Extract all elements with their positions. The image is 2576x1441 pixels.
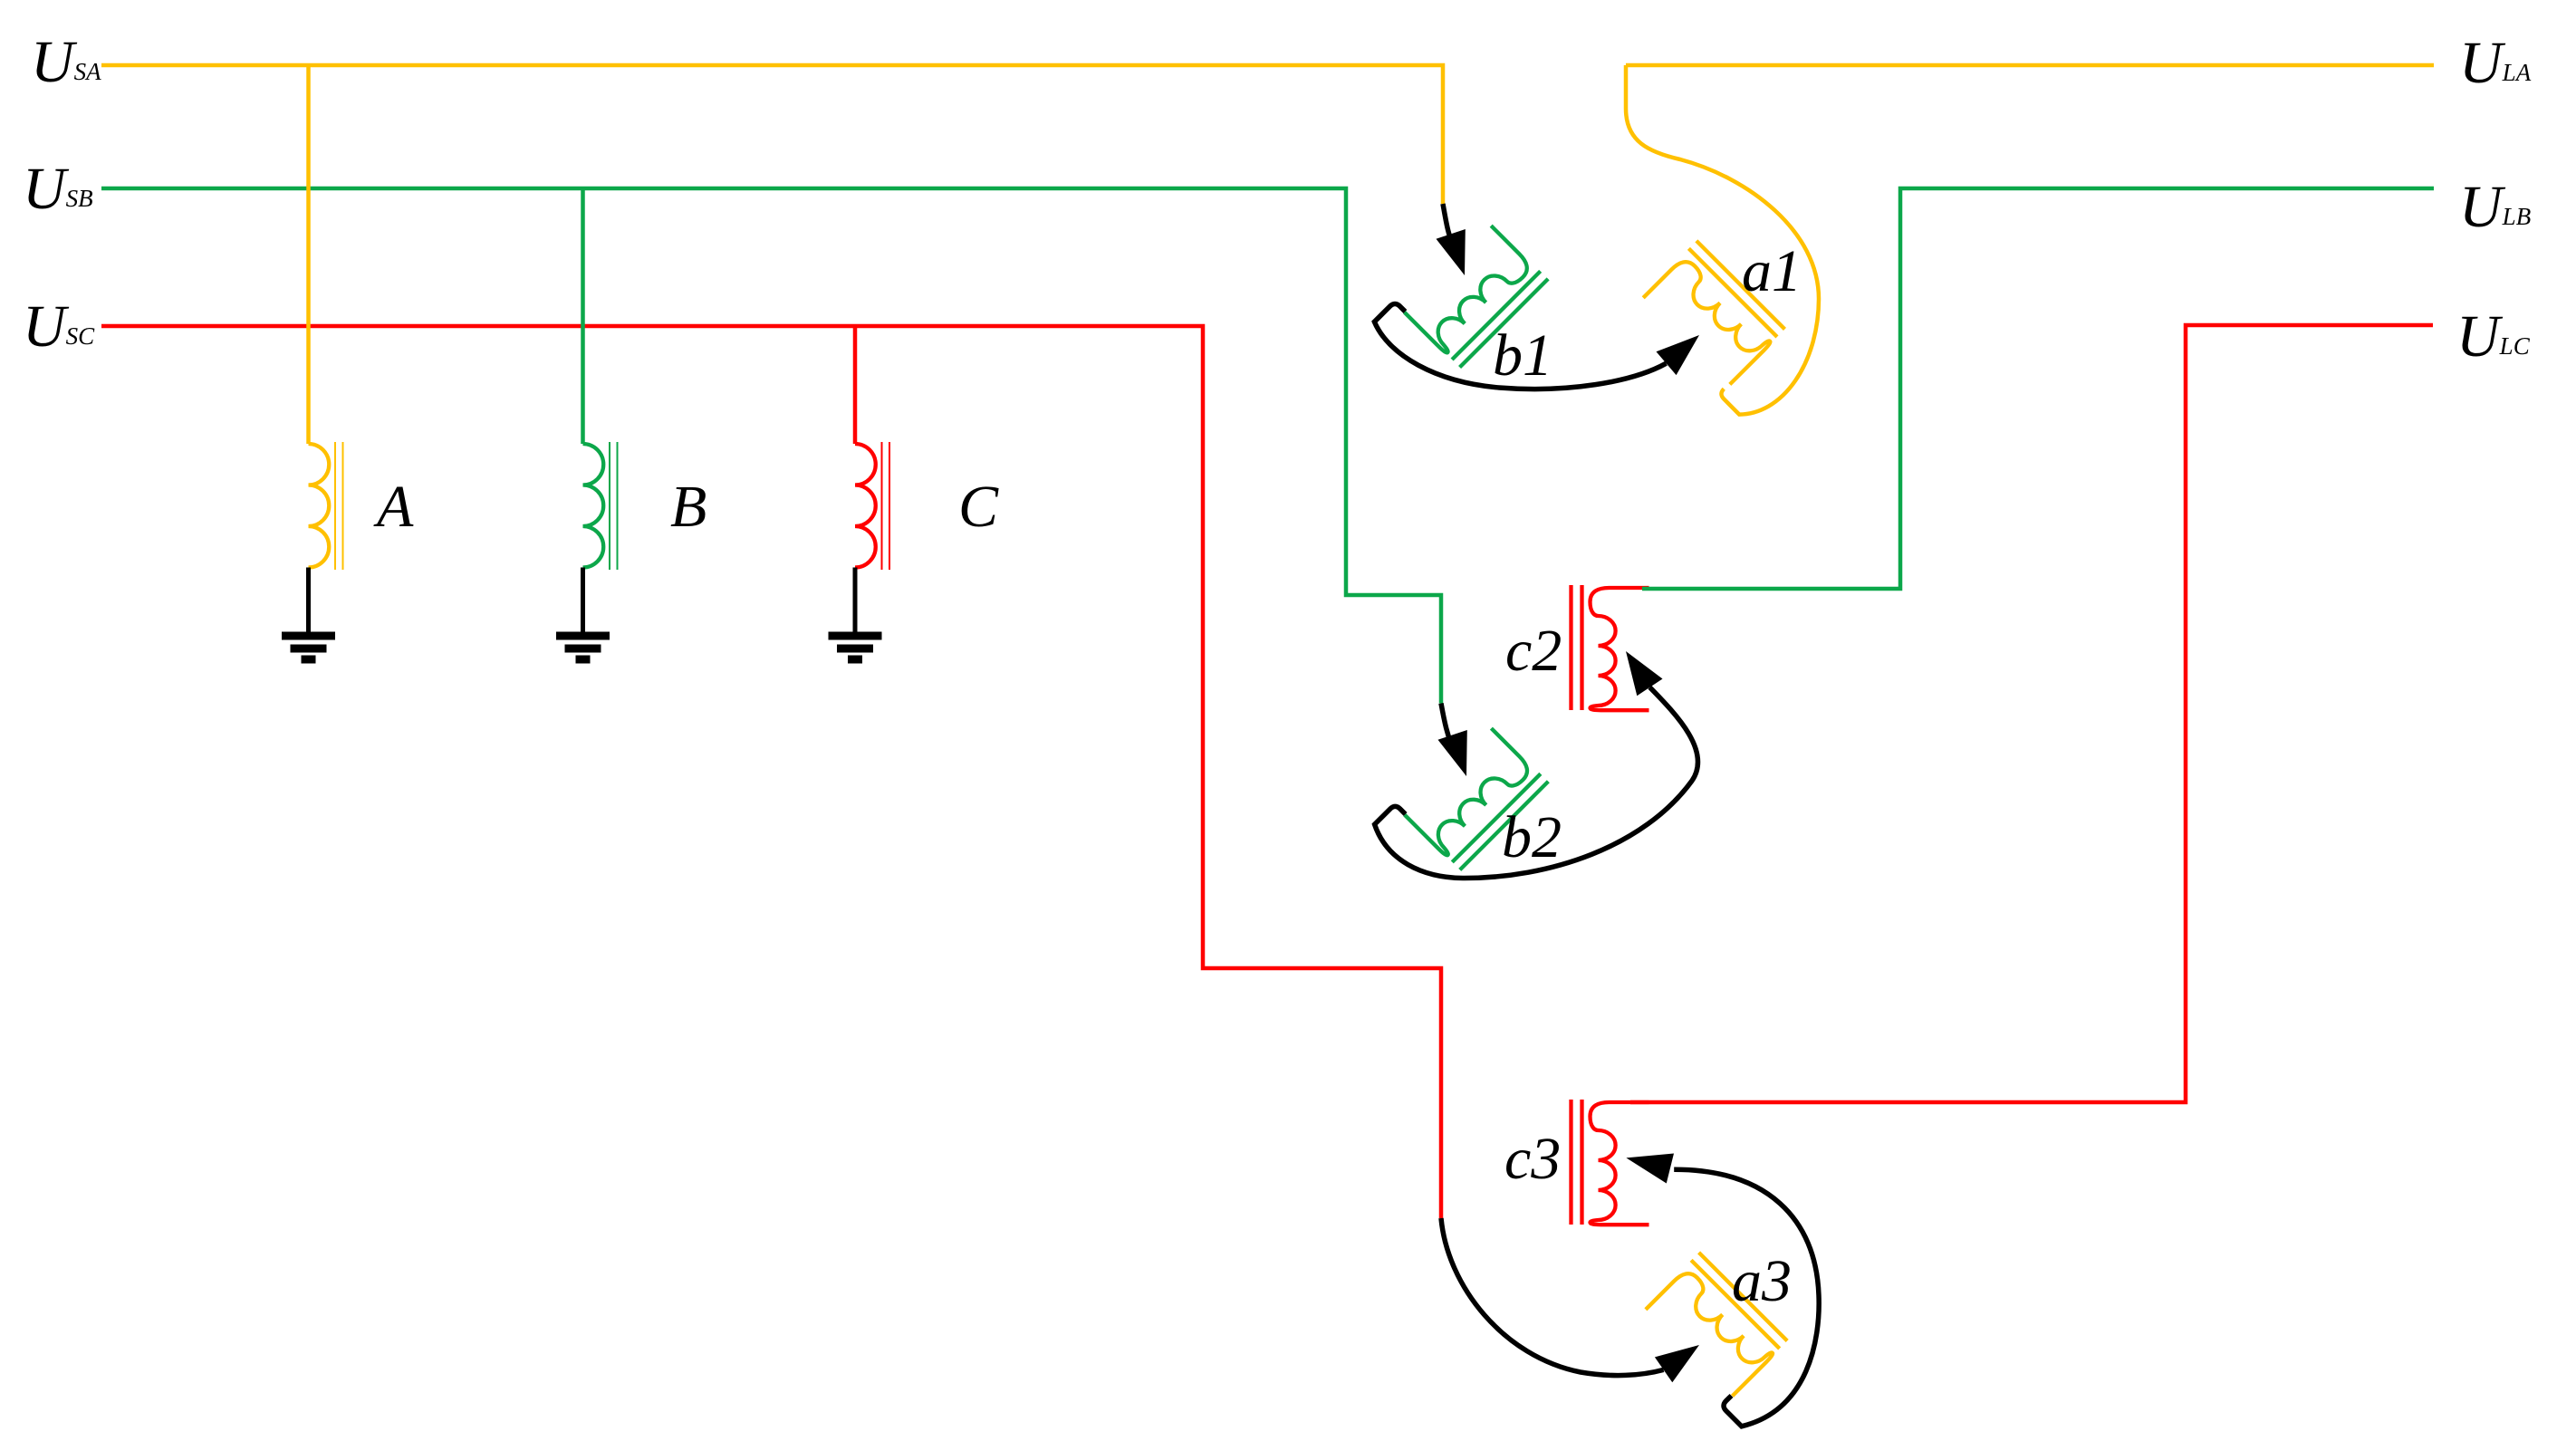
bus USB [101, 188, 1441, 704]
svg-text:USC: USC [23, 293, 95, 360]
black hook a3 + big arc to c3 [1674, 1169, 1819, 1427]
winding c2 [1572, 585, 1649, 710]
svg-text:a1: a1 [1742, 238, 1802, 304]
svg-text:USB: USB [23, 156, 93, 222]
svg-text:C: C [958, 474, 999, 540]
bus ULA [1626, 63, 2434, 68]
winding a3 [1646, 1253, 1787, 1397]
svg-text:ULA: ULA [2459, 30, 2532, 96]
bus USC [101, 326, 1441, 1218]
bus USA [101, 65, 1443, 204]
bus ULB (drawn after c2 so green overlaps red lead) [1642, 188, 2434, 589]
svg-text:b1: b1 [1493, 322, 1552, 389]
svg-text:A: A [373, 474, 414, 540]
ground B [556, 568, 610, 660]
wire drop to reactor A [306, 65, 311, 444]
winding b2 [1405, 728, 1549, 869]
ground C [829, 568, 882, 660]
winding c3 [1572, 1100, 1649, 1225]
wire drop to reactor C [853, 326, 858, 444]
wire ULA drop + arc into a1 hook [1626, 65, 1819, 415]
svg-text:ULB: ULB [2459, 174, 2531, 240]
svg-text:a3: a3 [1732, 1248, 1792, 1314]
black hook b2 + arc to c2 [1375, 687, 1698, 879]
svg-text:USA: USA [31, 29, 101, 95]
winding b1 [1405, 226, 1549, 367]
black curve red wire to a3 [1441, 1218, 1664, 1376]
winding a1 [1643, 241, 1784, 385]
svg-text:ULC: ULC [2456, 303, 2531, 370]
svg-text:c2: c2 [1505, 618, 1562, 684]
black hook b1 + arc to a1 [1374, 304, 1666, 389]
arrow into b1 [1443, 204, 1452, 243]
shunt reactor A [309, 442, 343, 570]
svg-text:b2: b2 [1502, 804, 1562, 870]
shunt reactor B [583, 442, 618, 570]
ground A [282, 568, 335, 660]
svg-text:c3: c3 [1504, 1126, 1561, 1192]
svg-text:B: B [670, 474, 706, 540]
shunt reactor C [855, 442, 889, 570]
arrow into b2 [1441, 704, 1452, 747]
wire drop to reactor B [581, 188, 585, 444]
bus ULC [1630, 325, 2433, 1102]
